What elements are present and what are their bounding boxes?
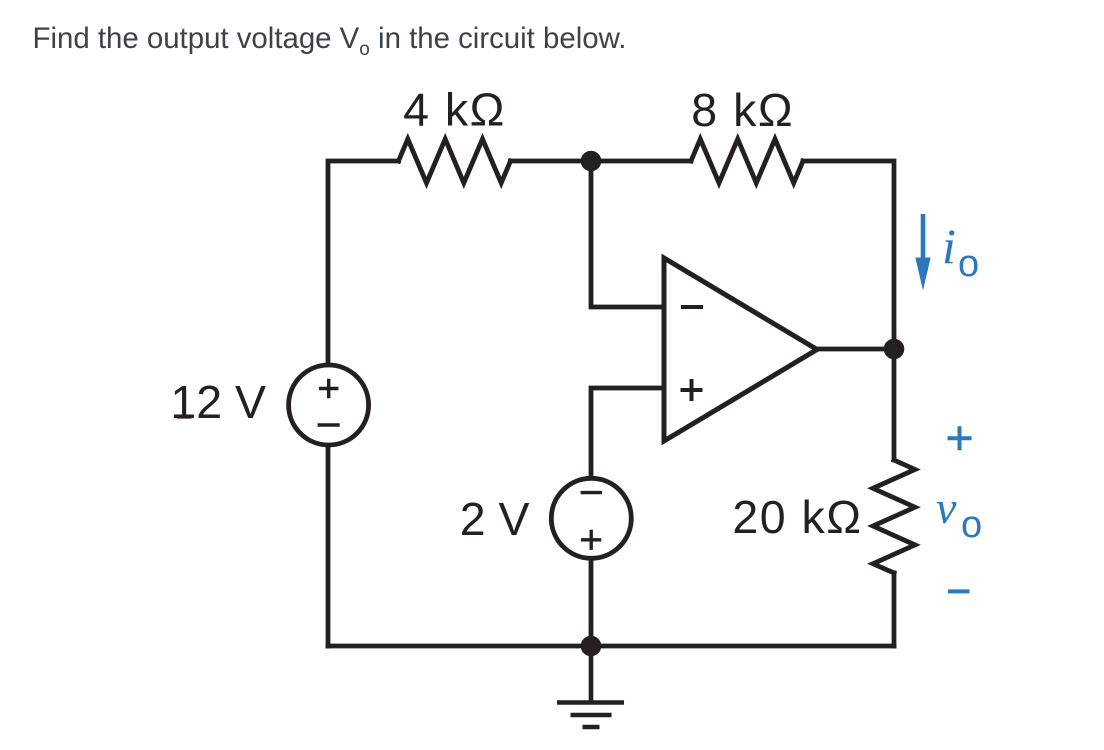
node A junction dot top — [581, 151, 602, 172]
source V1 12V circle — [289, 365, 369, 445]
wire below 20k resistor to bottom-right corner — [892, 573, 897, 646]
resistor R3 20 kOhm vertical zigzag — [873, 460, 915, 573]
wire left vertical above source — [328, 161, 399, 364]
svg-text:o: o — [958, 243, 979, 285]
source V2 minus sign — [581, 491, 602, 494]
wire op-amp output to right wire — [818, 347, 894, 352]
label vo plus sign — [948, 426, 972, 450]
svg-text:o: o — [961, 504, 982, 546]
svg-text:Find the output voltage Vo in: Find the output voltage Vo in the circui… — [33, 22, 627, 60]
source V2 2V circle — [551, 478, 631, 558]
wire bottom from right corner to left corner — [328, 644, 894, 649]
op-amp inverting input minus sign — [681, 305, 703, 309]
wire top-left from left corner to 4k resistor — [326, 446, 331, 646]
svg-text:v: v — [936, 482, 957, 533]
source V1 minus sign — [318, 423, 340, 426]
wire node A to 8k resistor — [591, 159, 691, 164]
node B junction dot op-amp output — [884, 339, 905, 360]
svg-text:4 kΩ: 4 kΩ — [403, 84, 506, 136]
source V1 plus sign — [319, 379, 339, 399]
svg-text:2 V: 2 V — [460, 493, 530, 545]
resistor R1 4 kOhm zigzag — [399, 139, 511, 183]
svg-text:20 kΩ: 20 kΩ — [732, 491, 862, 543]
wire between 4k resistor and node A — [511, 159, 592, 164]
current arrow io — [915, 214, 930, 291]
svg-text:8 kΩ: 8 kΩ — [691, 84, 794, 136]
wire node A down to inverting input — [591, 161, 661, 307]
svg-text:i: i — [942, 218, 956, 274]
wire 2V source bottom to bottom node — [589, 560, 594, 646]
label 12 V digit-1 foot serif — [177, 415, 192, 418]
resistor R2 8 kOhm zigzag — [691, 139, 803, 183]
source V2 plus sign — [581, 530, 601, 550]
op-amp U1 triangle — [664, 258, 817, 441]
node C junction dot bottom — [581, 636, 602, 657]
wire noninverting input left and down to 2V source — [591, 388, 661, 476]
svg-text:12 V: 12 V — [170, 376, 266, 428]
ground — [557, 646, 624, 727]
label vo minus sign — [948, 589, 970, 593]
op-amp noninverting input plus sign — [681, 379, 703, 401]
wire 8k resistor to top-right corner and down right side — [803, 161, 894, 460]
